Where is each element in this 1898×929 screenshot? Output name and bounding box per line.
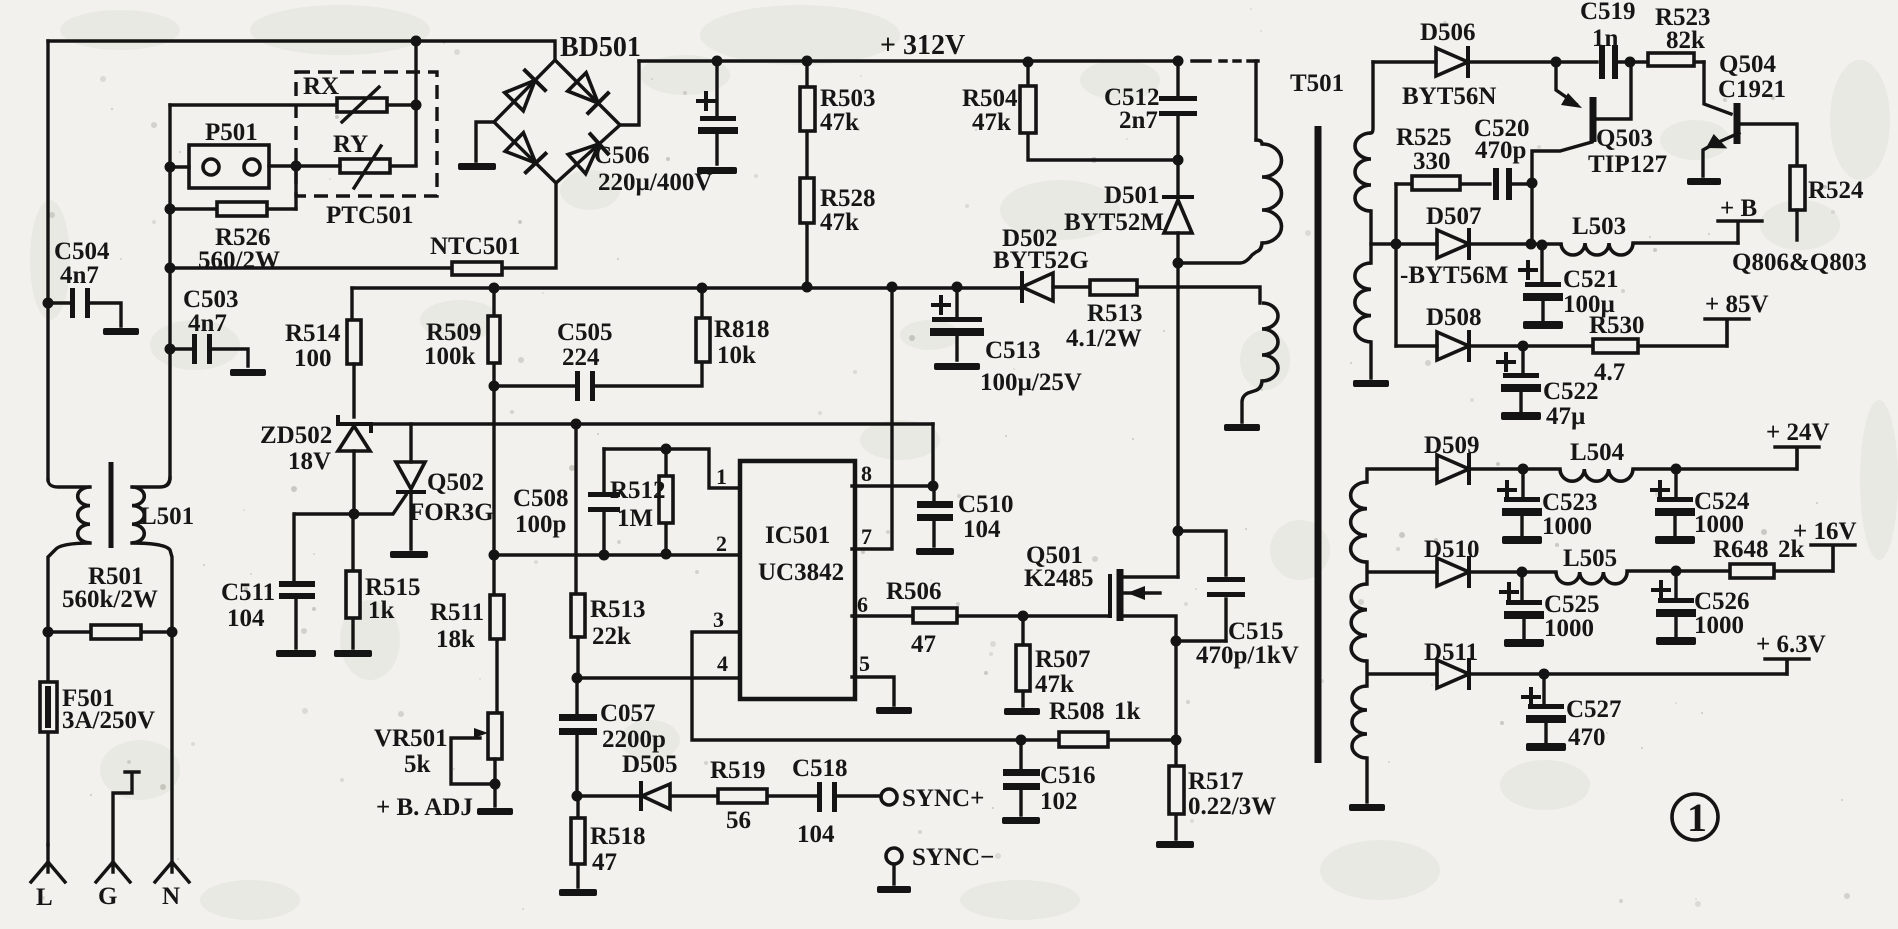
capacitor C515 470p/1kV (1207, 577, 1245, 582)
resistor R818 (696, 318, 710, 362)
resistor R519 (718, 789, 767, 803)
node: R528 bottom (802, 282, 813, 293)
svg-text:4: 4 (717, 651, 728, 676)
wire: C506 leads (715, 61, 718, 164)
node: source (1171, 636, 1182, 647)
svg-text:C527: C527 (1566, 696, 1622, 723)
svg-text:R524: R524 (1808, 177, 1864, 204)
svg-text:L: L (36, 884, 53, 911)
svg-text:D505: D505 (622, 751, 678, 778)
C522 + (1498, 354, 1514, 370)
wire: source to C515 (1176, 639, 1226, 642)
wire: W1/W2 tap (1371, 211, 1396, 244)
capacitor C521 100u (electrolytic) (1525, 282, 1561, 287)
wire: pin 7 Vcc riser (852, 287, 892, 549)
T501 secondary winding W2 (1355, 263, 1371, 342)
capacitor C512 2n7 (1159, 96, 1197, 101)
wire: R525/C520 branch (1396, 182, 1532, 185)
svg-text:C522: C522 (1543, 378, 1599, 405)
resistor R523 (1648, 53, 1694, 66)
T501 core (1315, 126, 1322, 763)
svg-text:47: 47 (592, 849, 617, 876)
wire: Vcc bus (352, 286, 1022, 289)
svg-text:BYT52M: BYT52M (1064, 209, 1164, 236)
wire: C512 bottom lead (1176, 117, 1179, 160)
svg-text:R509: R509 (426, 319, 482, 346)
diode D509 (1437, 455, 1469, 483)
svg-text:56: 56 (726, 807, 751, 834)
svg-text:+ B: + B (1720, 195, 1757, 222)
svg-text:18V: 18V (288, 448, 331, 475)
connector P501 (189, 145, 269, 188)
capacitor C503 4n7 (192, 334, 197, 364)
svg-text:-BYT56M: -BYT56M (1400, 262, 1508, 289)
T501 secondary winding W4 (1351, 584, 1367, 661)
capacitor C513 (electrolytic 100u/25V) (932, 317, 982, 322)
node: C510 (928, 481, 939, 492)
svg-text:1000: 1000 (1544, 615, 1594, 642)
node: R507 (1018, 611, 1029, 622)
svg-text:C510: C510 (958, 491, 1014, 518)
svg-text:C057: C057 (600, 700, 656, 727)
node: Q502 gate (349, 509, 360, 520)
wire: RX branch (170, 103, 416, 106)
T501 secondary winding W5 (1352, 686, 1367, 758)
capacitor C516 102 (1003, 769, 1040, 776)
wire: ZD502 to gate node (352, 451, 355, 514)
svg-text:D509: D509 (1424, 432, 1480, 459)
transistor Q501 K2485 (MOSFET) (1108, 576, 1112, 616)
svg-text:104: 104 (797, 821, 835, 848)
wire: R518 leads (576, 796, 579, 887)
svg-text:1000: 1000 (1542, 513, 1592, 540)
svg-text:1: 1 (1687, 795, 1707, 840)
svg-text:UC3842: UC3842 (758, 559, 844, 586)
svg-text:47: 47 (911, 631, 936, 658)
wire: +16V line (1470, 547, 1833, 572)
svg-text:104: 104 (227, 605, 265, 632)
node: NTC branch (165, 263, 176, 274)
svg-text:C523: C523 (1542, 489, 1598, 516)
svg-text:+ 24V: + 24V (1766, 419, 1830, 446)
svg-text:R818: R818 (714, 316, 770, 343)
svg-text:22k: 22k (592, 623, 631, 650)
svg-text:FOR3G: FOR3G (409, 499, 494, 526)
ground (R507) (1004, 708, 1040, 715)
wire: pin1 loop top (604, 449, 740, 488)
wire: SYNC- ground lead (892, 864, 895, 884)
svg-text:K2485: K2485 (1024, 565, 1093, 592)
svg-text:224: 224 (562, 344, 600, 371)
node: C523 (1518, 464, 1529, 475)
wire: NTC501 line to bridge bottom (170, 183, 556, 268)
resistor R528 (800, 178, 814, 223)
svg-text:R507: R507 (1035, 646, 1091, 673)
wire: C513 leads (955, 287, 958, 360)
svg-text:R512: R512 (610, 477, 666, 504)
resistor R513 (22k) (571, 594, 585, 637)
wire: C512 top lead (1176, 61, 1179, 95)
svg-text:C525: C525 (1544, 591, 1600, 618)
svg-text:102: 102 (1040, 788, 1078, 815)
ground (Q502) (390, 551, 428, 558)
svg-text:18k: 18k (436, 626, 475, 653)
capacitor C511 104 (279, 581, 315, 587)
wire: D501 leads (1176, 160, 1179, 263)
svg-text:470p: 470p (1475, 137, 1526, 164)
wire: feedback to ground (1242, 381, 1262, 422)
wire: primary bottom to drain (1178, 243, 1262, 263)
svg-text:D506: D506 (1420, 19, 1476, 46)
resistor R503 (800, 87, 815, 131)
diode D502 BYT52G (1022, 273, 1053, 301)
svg-text:C506: C506 (594, 142, 650, 169)
node: Q503 emitter (1551, 57, 1562, 68)
svg-text:R517: R517 (1188, 768, 1244, 795)
fuse F501 (40, 682, 57, 732)
svg-text:+ 16V: + 16V (1793, 518, 1857, 545)
diode D511 (1437, 660, 1469, 688)
resistor R504 (1020, 86, 1036, 133)
ground (W2) (1353, 380, 1389, 387)
node: C512 top (1173, 56, 1184, 67)
node: C524 (1671, 464, 1682, 475)
wire: R517 leads (1174, 740, 1177, 839)
svg-text:1: 1 (716, 464, 727, 489)
wire: W3 top to D509 (1367, 469, 1437, 482)
svg-text:4.7: 4.7 (1594, 359, 1625, 386)
ground (bridge) (458, 163, 496, 170)
node: R517 top (1171, 735, 1182, 746)
wire: RX/RY return (294, 166, 297, 209)
svg-text:RX: RX (303, 73, 339, 100)
node: dashed box left / RY (291, 161, 302, 172)
node: C506 (712, 56, 723, 67)
PTC501 dashed box (296, 72, 437, 196)
wire: W1 top lead (1371, 62, 1373, 133)
inductor L501 left winding (78, 487, 90, 543)
ground (C503) (230, 369, 266, 376)
ground (R515) (334, 650, 372, 657)
svg-text:Q503: Q503 (1596, 125, 1653, 152)
capacitor C519 1n (1599, 45, 1605, 79)
svg-text:330: 330 (1413, 148, 1451, 175)
ground (C504) (103, 328, 139, 335)
node: R512 bottom (661, 549, 672, 560)
node: C505 line (489, 381, 500, 392)
T501 secondary winding W1 (1355, 133, 1371, 211)
svg-text:D501: D501 (1104, 182, 1160, 209)
svg-text:1000: 1000 (1694, 612, 1744, 639)
wire: source to sense (1174, 641, 1177, 740)
resistor R507 (1016, 645, 1030, 691)
wire: C504 leads (48, 303, 121, 326)
ground (SYNC-) (877, 886, 911, 893)
terminal +B (1718, 221, 1762, 243)
capacitor C510 104 (917, 501, 953, 508)
wire: R511/VR501 leads (494, 555, 497, 713)
node: R509 top (489, 283, 500, 294)
svg-text:C508: C508 (513, 485, 569, 512)
node: R501 right (167, 627, 178, 638)
wire: C505/R818 line (494, 288, 702, 386)
ground (C510) (916, 548, 954, 555)
svg-text:1M: 1M (617, 505, 653, 532)
zener diode ZD502 18V (338, 417, 371, 431)
wire: +6.3V line (1470, 661, 1787, 674)
ground (Q504 emitter) (1687, 178, 1721, 185)
ground (C513) (934, 363, 980, 370)
wire: C503 leads (170, 349, 248, 366)
terminal +6.3V (1765, 659, 1809, 674)
terminal +85V (1705, 319, 1749, 346)
svg-text:560/2W: 560/2W (198, 247, 280, 274)
ground (C511) (276, 650, 316, 657)
svg-text:R511: R511 (430, 599, 484, 626)
svg-text:C504: C504 (54, 238, 110, 265)
wire: C516 top lead (1019, 740, 1022, 769)
terminal plug L (31, 845, 65, 882)
svg-text:100: 100 (294, 345, 332, 372)
wire: C516 bottom lead (1019, 790, 1022, 815)
resistor R513 (4.1/2W) (1090, 280, 1137, 295)
node: C525 (1517, 567, 1528, 578)
svg-text:R525: R525 (1396, 124, 1452, 151)
svg-text:47k: 47k (972, 109, 1011, 136)
svg-text:1n: 1n (1592, 25, 1619, 52)
ground (feedback winding) (1224, 424, 1260, 431)
node: C504 (43, 298, 54, 309)
svg-text:R519: R519 (710, 757, 766, 784)
diode D507 BYT56M (1437, 230, 1469, 258)
svg-text:C519: C519 (1580, 0, 1636, 25)
wire: Vref to R513(22k) (574, 424, 577, 594)
resistor R501 (91, 625, 141, 639)
node: RX right (411, 100, 422, 111)
svg-text:BYT56N: BYT56N (1402, 83, 1496, 110)
svg-text:1k: 1k (368, 597, 395, 624)
wire: P501 left lead (170, 165, 189, 168)
wire: sync line (577, 794, 880, 797)
node: C527 (1539, 669, 1550, 680)
svg-text:C513: C513 (985, 337, 1041, 364)
terminal +16V (1811, 545, 1855, 571)
svg-text:Q806&Q803: Q806&Q803 (1732, 249, 1867, 276)
wire: primary top lead (1254, 61, 1257, 140)
svg-text:ZD502: ZD502 (260, 422, 332, 449)
capacitor C524 1000 (electrolytic) (1657, 497, 1693, 502)
wire: C525 top lead (1520, 572, 1523, 600)
resistor R509 (488, 316, 500, 363)
svg-text:2200p: 2200p (602, 726, 666, 753)
svg-text:R648: R648 (1713, 536, 1769, 563)
wire: W3/W4 tap to D510 (1367, 562, 1437, 584)
svg-text:C503: C503 (183, 286, 239, 313)
wire: L501 left bottom lead (48, 543, 90, 632)
terminal SYNC+ (881, 789, 897, 805)
capacitor C504 4n7 (70, 288, 75, 318)
wire: Q502 anode/cathode leads (409, 424, 412, 549)
svg-text:5k: 5k (404, 751, 431, 778)
svg-text:TIP127: TIP127 (1588, 151, 1667, 178)
diode D506 BYT56N (1436, 48, 1468, 76)
svg-text:+ 312V: + 312V (880, 30, 965, 61)
node: Vref/RT (571, 419, 582, 430)
node: R512 top (661, 444, 672, 455)
wire: pin 4 line (577, 676, 740, 679)
svg-text:D511: D511 (1424, 639, 1478, 666)
svg-text:47µ: 47µ (1546, 403, 1585, 430)
ground (C516) (1002, 817, 1040, 824)
wire: C526 top lead (1674, 571, 1677, 598)
wire: snubber feed to winding (1053, 287, 1260, 303)
inductor L504 (1560, 469, 1633, 481)
node: R501 left (43, 627, 54, 638)
node: Q503 collector/C520 (1527, 178, 1538, 189)
C513 + (933, 297, 949, 313)
wire: RX/RY right riser (414, 41, 417, 165)
node: C508 bottom (599, 550, 610, 561)
wire: R507 leads (1021, 616, 1024, 706)
diode D501 (vertical, cathode up) (1164, 195, 1192, 199)
ground (pin5) (876, 707, 912, 714)
wire: bridge plus to rail (620, 61, 639, 125)
svg-text:0.22/3W: 0.22/3W (1188, 793, 1276, 820)
svg-text:VR501: VR501 (374, 725, 448, 752)
svg-text:560k/2W: 560k/2W (62, 586, 158, 613)
svg-text:1000: 1000 (1694, 511, 1744, 538)
capacitor C522 47u (electrolytic) (1503, 373, 1539, 378)
wire: R512 leads (664, 449, 667, 554)
wire: +85V line (1396, 321, 1727, 346)
svg-text:P501: P501 (205, 119, 258, 146)
svg-text:3: 3 (713, 607, 724, 632)
node: C503 (165, 344, 176, 355)
svg-text:L501: L501 (140, 503, 194, 530)
svg-text:4n7: 4n7 (60, 262, 99, 289)
svg-text:NTC501: NTC501 (430, 233, 520, 260)
resistor RY (varistor) (340, 159, 390, 173)
C506 + (698, 93, 714, 109)
capacitor C518 104 (817, 782, 822, 812)
svg-text:R514: R514 (285, 320, 341, 347)
svg-text:BD501: BD501 (560, 32, 641, 63)
svg-text:8: 8 (861, 461, 872, 486)
svg-text:3A/250V: 3A/250V (62, 707, 155, 734)
svg-text:2: 2 (716, 531, 727, 556)
wire: C510 bottom lead (932, 521, 935, 546)
capacitor C525 1000 (electrolytic) (1506, 600, 1542, 605)
svg-text:R506: R506 (886, 578, 942, 605)
node: C515 top (1173, 526, 1184, 537)
C526 + (1653, 582, 1669, 598)
wire: L501 right bottom lead (132, 543, 172, 632)
resistor NTC501 (452, 262, 502, 275)
svg-text:470: 470 (1568, 724, 1606, 751)
node: top wire / RX riser (411, 36, 422, 47)
wire: collector to L503 line (1530, 183, 1533, 244)
op-amp/controller U IC501 UC3842 (740, 461, 855, 699)
resistor R526 (217, 202, 267, 216)
svg-text:C515: C515 (1228, 618, 1284, 645)
node: Q503 out (1526, 239, 1537, 250)
svg-text:47k: 47k (820, 209, 859, 236)
svg-text:2n7: 2n7 (1119, 107, 1158, 134)
resistor R506 (913, 608, 957, 623)
wire: C511 bottom lead (294, 599, 297, 648)
svg-text:C505: C505 (557, 319, 613, 346)
wire: C521 top lead (1540, 245, 1543, 282)
diode D505 (cathode left) (642, 784, 670, 809)
node: Vcc riser (887, 282, 898, 293)
wire: C524 top lead (1674, 469, 1677, 497)
wire: +312V rail (639, 59, 1178, 62)
wire: P501 right to RY (269, 164, 340, 167)
svg-text:+ 6.3V: + 6.3V (1756, 631, 1826, 658)
node: C516 (1016, 735, 1027, 746)
svg-text:N: N (162, 883, 180, 910)
wire: C057 top lead (575, 678, 578, 714)
T501 primary winding (1262, 144, 1282, 243)
capacitor C505 224 (575, 371, 580, 401)
C523 + (1499, 482, 1515, 498)
node: P501 left (165, 162, 176, 173)
svg-text:+ 85V: + 85V (1705, 291, 1769, 318)
svg-text:47k: 47k (820, 109, 859, 136)
svg-text:G: G (98, 883, 117, 910)
wire: R515 leads (351, 514, 354, 648)
node: primary bottom / drain (1173, 258, 1184, 269)
wire: VR501 bottom (493, 759, 496, 806)
C521 + (1520, 262, 1536, 278)
node: D505 line (572, 791, 583, 802)
node: C519/R523 (1625, 57, 1636, 68)
resistor R511 (490, 595, 504, 639)
wire: C515 top lead (1178, 531, 1226, 575)
wire: R504 to C512 bottom (1028, 62, 1178, 160)
svg-text:PTC501: PTC501 (326, 202, 414, 229)
wire: C523 top lead (1521, 469, 1524, 497)
node: R526 left (165, 204, 176, 215)
svg-text:T501: T501 (1290, 70, 1344, 97)
resistor R517 (1169, 766, 1184, 814)
resistor R508 (1059, 732, 1108, 747)
node: R818 top (697, 283, 708, 294)
ground (VR501) (477, 808, 513, 815)
svg-text:4n7: 4n7 (188, 310, 227, 337)
transistor Q503 TIP127 (1590, 97, 1597, 142)
T501 secondary winding W3 (1351, 482, 1367, 562)
wire: W4/W5 tap to D511 (1367, 661, 1437, 686)
wire: pin 6 gate line (852, 614, 1110, 617)
resistor R512 (659, 476, 673, 523)
capacitor C520 470p (1493, 168, 1499, 200)
svg-text:D508: D508 (1426, 304, 1482, 331)
terminal plug G (96, 772, 139, 882)
wire: drain vertical (1176, 263, 1179, 577)
ground (R517) (1156, 841, 1194, 848)
wire: bridge minus to ground (476, 122, 494, 161)
svg-text:C511: C511 (221, 579, 275, 606)
svg-text:220µ/400V: 220µ/400V (598, 169, 712, 196)
svg-text:100k: 100k (424, 343, 476, 370)
wire: fuse leads (46, 632, 49, 845)
wire: tap riser R525/D508 (1394, 184, 1397, 346)
inductor L501 right winding (132, 487, 144, 543)
terminal +24V (1775, 447, 1819, 469)
svg-text:Q504: Q504 (1719, 51, 1776, 78)
svg-text:Q502: Q502 (427, 469, 484, 496)
